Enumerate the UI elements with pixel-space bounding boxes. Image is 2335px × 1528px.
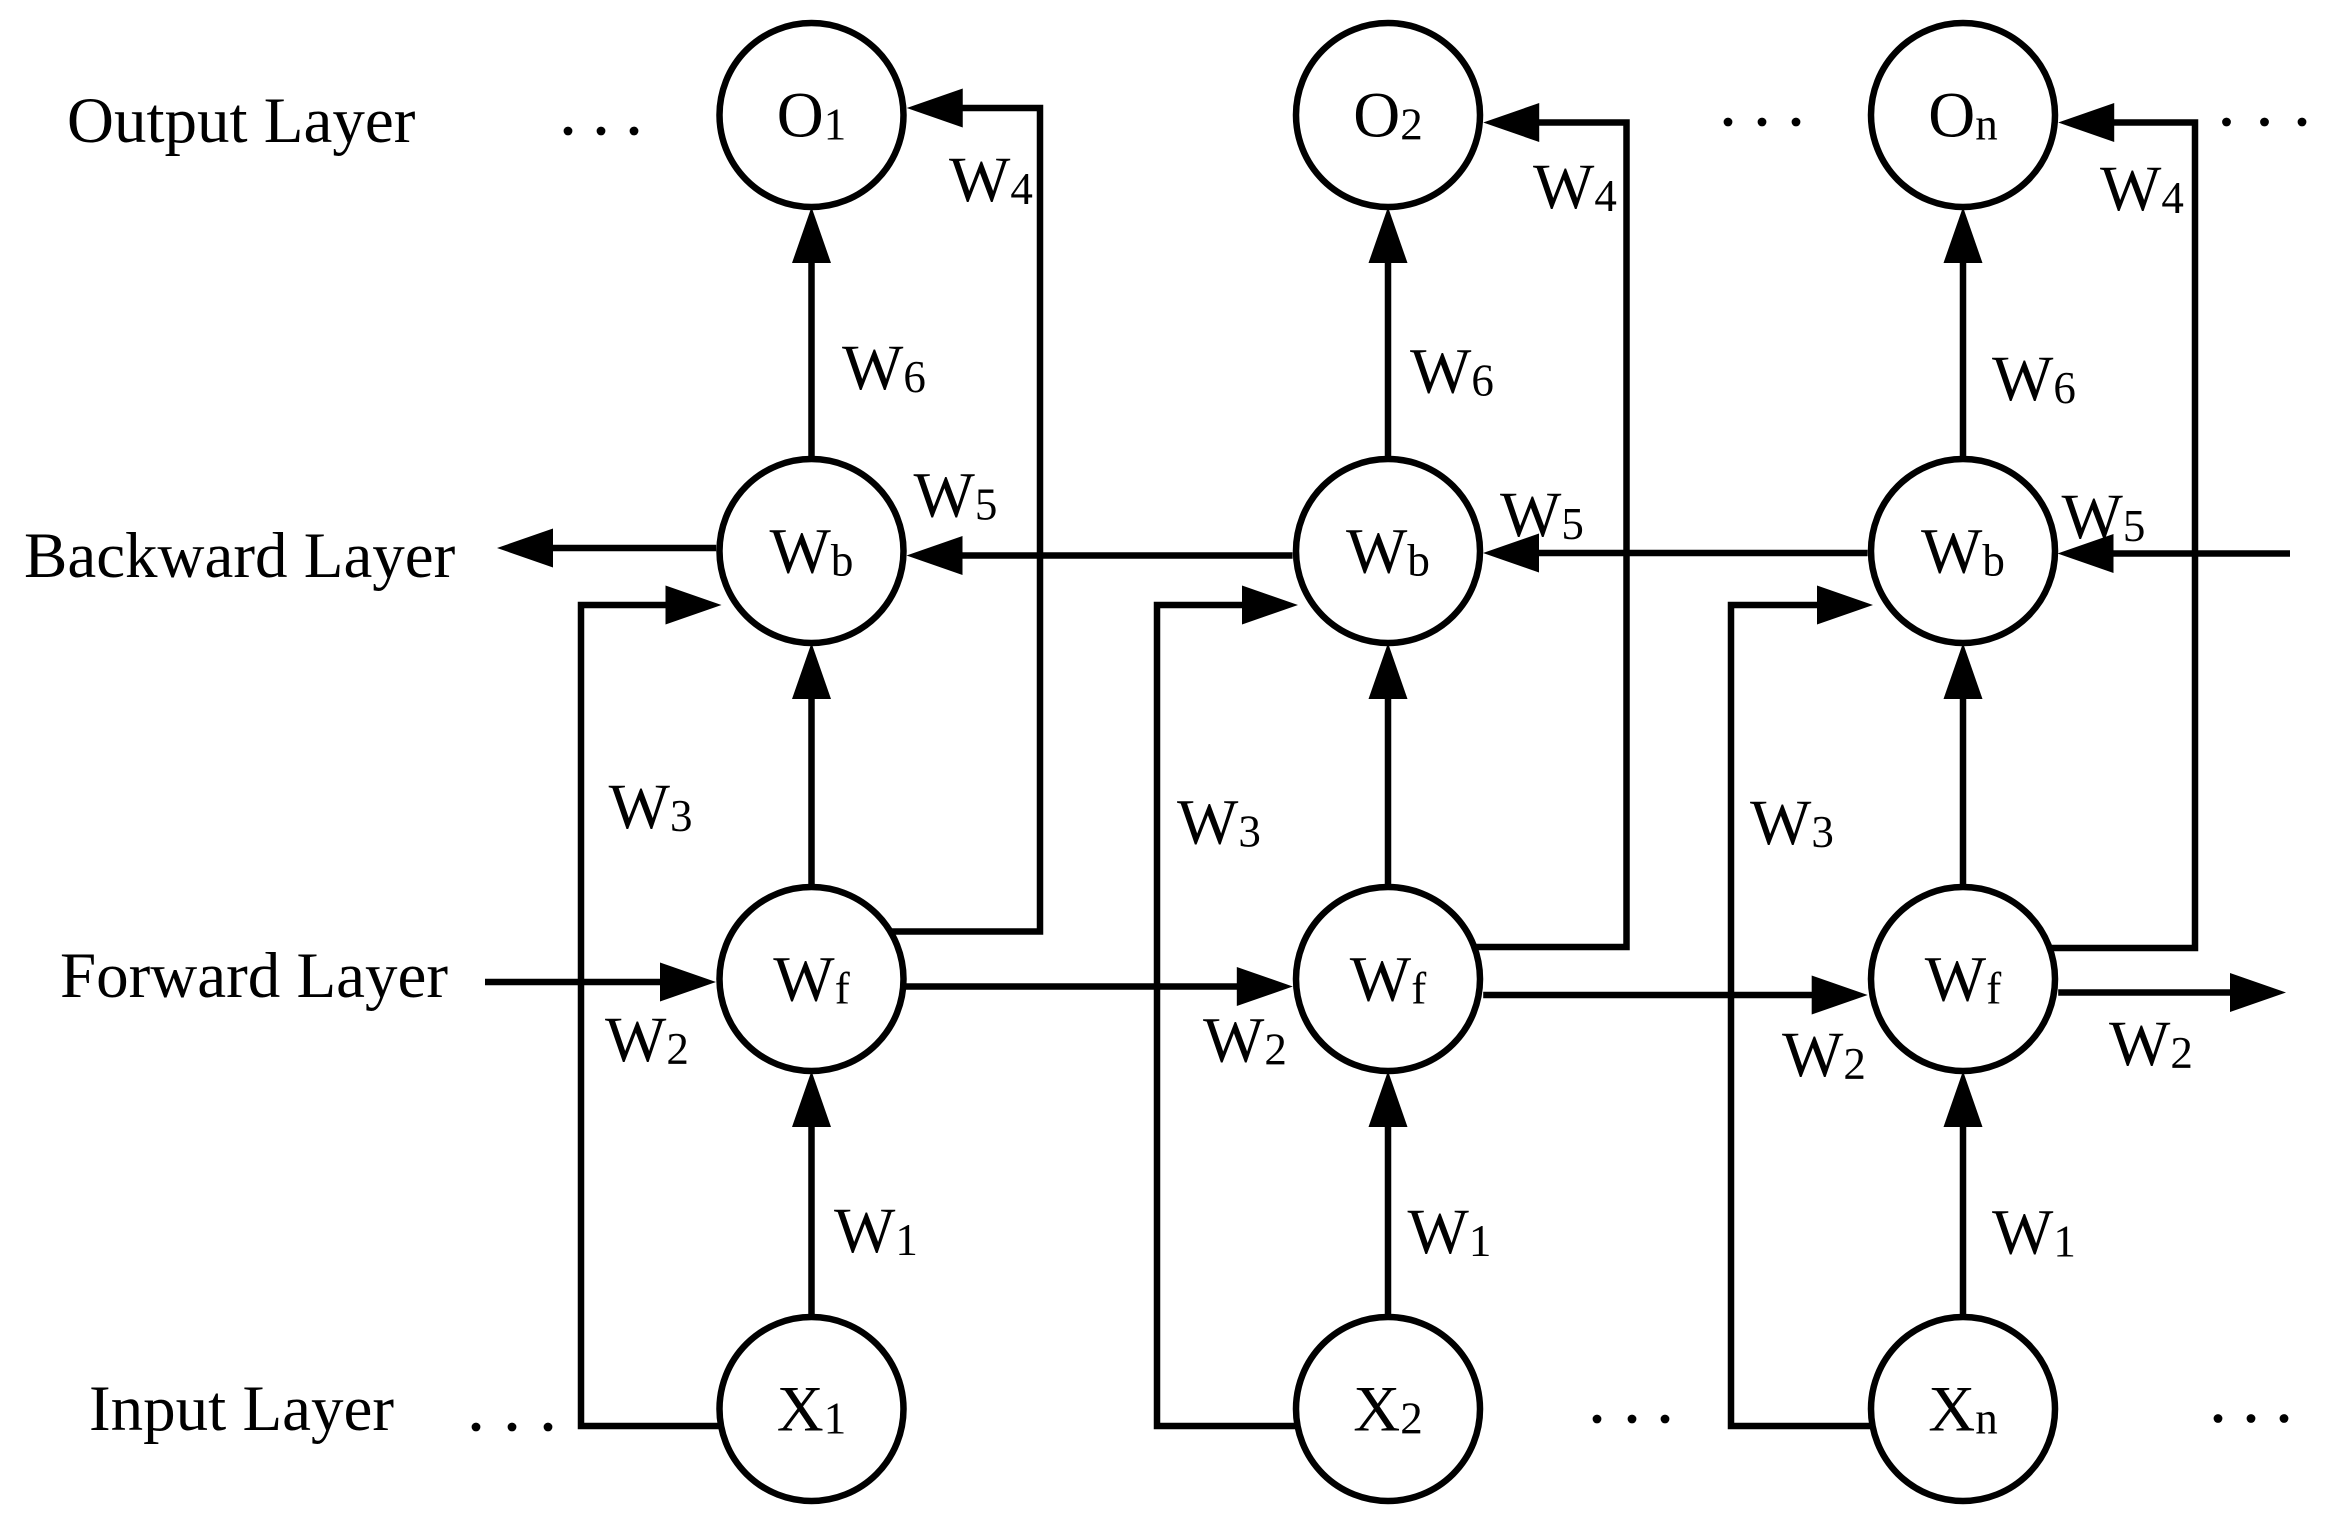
svg-text:1: 1 bbox=[2053, 1217, 2076, 1267]
svg-text:W: W bbox=[949, 144, 1011, 216]
svg-text:W: W bbox=[2100, 153, 2162, 225]
svg-text:2: 2 bbox=[1843, 1039, 1866, 1089]
svg-text:b: b bbox=[831, 536, 854, 586]
svg-text:W: W bbox=[842, 332, 904, 404]
svg-text:3: 3 bbox=[670, 791, 693, 841]
svg-text:W: W bbox=[1925, 944, 1987, 1016]
svg-text:W: W bbox=[773, 944, 835, 1016]
svg-text:W: W bbox=[605, 1004, 667, 1076]
svg-text:X: X bbox=[1353, 1374, 1400, 1446]
svg-text:X: X bbox=[1928, 1374, 1975, 1446]
svg-text:W: W bbox=[1992, 343, 2054, 415]
svg-text:Output Layer: Output Layer bbox=[67, 85, 416, 157]
svg-text:W: W bbox=[1533, 151, 1595, 223]
svg-text:W: W bbox=[834, 1195, 896, 1267]
svg-text:6: 6 bbox=[2053, 363, 2076, 413]
svg-text:W: W bbox=[1203, 1005, 1265, 1077]
svg-text:W: W bbox=[1350, 944, 1412, 1016]
svg-text:5: 5 bbox=[1561, 499, 1584, 549]
svg-text:O: O bbox=[1353, 80, 1400, 152]
svg-text:1: 1 bbox=[895, 1215, 918, 1265]
svg-text:2: 2 bbox=[2170, 1028, 2193, 1078]
svg-text:Input Layer: Input Layer bbox=[89, 1373, 394, 1445]
svg-text:b: b bbox=[1407, 536, 1430, 586]
svg-text:W: W bbox=[1782, 1019, 1844, 1091]
svg-text:2: 2 bbox=[1264, 1025, 1287, 1075]
svg-text:2: 2 bbox=[1400, 1394, 1423, 1444]
svg-text:2: 2 bbox=[1400, 100, 1423, 150]
svg-text:W: W bbox=[1921, 516, 1983, 588]
svg-text:6: 6 bbox=[903, 352, 926, 402]
svg-text:5: 5 bbox=[975, 480, 998, 530]
svg-text:O: O bbox=[1928, 80, 1975, 152]
svg-text:W: W bbox=[770, 516, 832, 588]
svg-text:W: W bbox=[1500, 479, 1562, 551]
svg-text:O: O bbox=[777, 80, 824, 152]
svg-text:3: 3 bbox=[1238, 807, 1261, 857]
svg-text:4: 4 bbox=[2161, 173, 2184, 223]
svg-text:b: b bbox=[1982, 536, 2005, 586]
svg-text:f: f bbox=[835, 964, 850, 1014]
svg-text:5: 5 bbox=[2123, 501, 2146, 551]
svg-text:1: 1 bbox=[1469, 1216, 1492, 1266]
svg-text:W: W bbox=[1346, 516, 1408, 588]
svg-text:W: W bbox=[609, 771, 671, 843]
svg-text:W: W bbox=[914, 460, 976, 532]
svg-text:n: n bbox=[1975, 100, 1998, 150]
svg-text:Forward Layer: Forward Layer bbox=[60, 940, 448, 1012]
svg-text:W: W bbox=[1750, 787, 1812, 859]
svg-text:W: W bbox=[1410, 336, 1472, 408]
svg-text:6: 6 bbox=[1471, 356, 1494, 406]
svg-text:Backward Layer: Backward Layer bbox=[24, 520, 456, 592]
svg-text:4: 4 bbox=[1594, 171, 1617, 221]
svg-text:1: 1 bbox=[824, 100, 847, 150]
svg-text:f: f bbox=[1411, 964, 1426, 1014]
svg-text:X: X bbox=[777, 1374, 824, 1446]
svg-text:1: 1 bbox=[824, 1394, 847, 1444]
svg-text:n: n bbox=[1975, 1394, 1998, 1444]
svg-text:W: W bbox=[1992, 1197, 2054, 1269]
svg-text:W: W bbox=[1177, 787, 1239, 859]
svg-text:2: 2 bbox=[666, 1024, 689, 1074]
svg-text:W: W bbox=[1408, 1196, 1470, 1268]
svg-text:W: W bbox=[2062, 481, 2124, 553]
svg-text:3: 3 bbox=[1811, 807, 1834, 857]
svg-text:f: f bbox=[1986, 964, 2001, 1014]
svg-text:4: 4 bbox=[1010, 164, 1033, 214]
svg-text:W: W bbox=[2109, 1008, 2171, 1080]
